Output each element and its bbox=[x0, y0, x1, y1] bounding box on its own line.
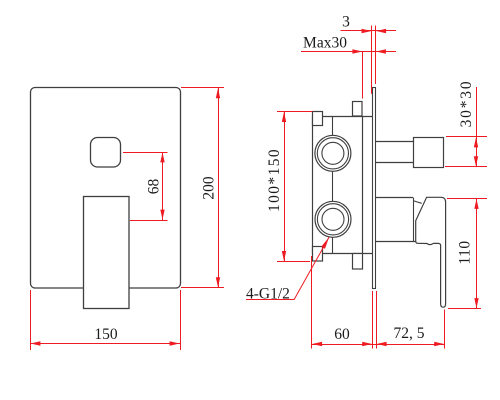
dimension 150: left extension line bbox=[30, 290, 32, 350]
dimension 150: right extension line bbox=[180, 290, 182, 350]
svg-text:200: 200 bbox=[201, 176, 218, 200]
dimension 200: bottom extension line bbox=[181, 287, 224, 289]
valve body centre line segments bbox=[332, 117, 334, 136]
dimension 68: extension line at valve centre bbox=[130, 220, 168, 222]
dimension 68: dimension line bbox=[162, 152, 164, 220]
svg-text:72, 5: 72, 5 bbox=[394, 325, 425, 342]
front plate P1 bbox=[31, 88, 181, 289]
inlet lug bottom-left bbox=[313, 247, 323, 262]
dimension Max30: dimension line bbox=[301, 51, 396, 53]
svg-text:150: 150 bbox=[94, 326, 118, 343]
diverter stem top edge bbox=[376, 141, 414, 143]
dimension 200: dimension line bbox=[218, 88, 220, 288]
dimension 60: left extension line bbox=[311, 256, 313, 349]
lever handle H1 (front) bbox=[84, 197, 130, 309]
dimension 3: right extension line bbox=[375, 26, 377, 85]
svg-text:30*30: 30*30 bbox=[458, 80, 475, 128]
valve body internal edge bbox=[362, 117, 364, 254]
diverter knob 30*30 bbox=[414, 138, 444, 168]
dimension 200: top extension line bbox=[181, 87, 224, 89]
dimension 30*30: bottom extension line bbox=[445, 166, 487, 168]
lower port middle circle bbox=[317, 204, 348, 235]
svg-text:60: 60 bbox=[334, 326, 350, 343]
dimension 30*30: top extension line bbox=[446, 136, 487, 138]
lever neck bottom edge bbox=[376, 241, 416, 243]
inlet lug top-left bbox=[313, 112, 323, 126]
dimension 68: extension line from button centre bbox=[123, 152, 168, 154]
dimension 100*150: bottom extension line bbox=[277, 261, 310, 263]
valve body (side view) outline bbox=[313, 117, 374, 254]
lever neck fillet bbox=[413, 201, 422, 204]
upper port outer circle bbox=[315, 135, 351, 171]
lever handle (side view) bbox=[416, 197, 446, 307]
svg-text:Max30: Max30 bbox=[303, 35, 347, 52]
inlet lug bottom-right bbox=[353, 254, 363, 270]
lower port outer circle bbox=[315, 201, 351, 237]
dimension 100*150: dimension line bbox=[284, 112, 286, 262]
diverter stem bottom edge bbox=[376, 162, 414, 164]
upper port bore circle bbox=[322, 142, 344, 164]
diverter button B1 (front) bbox=[91, 138, 121, 168]
dimension 100*150: top extension line bbox=[277, 111, 313, 113]
dimension 110: bottom extension line bbox=[448, 308, 481, 310]
dimensions 60 and 72,5: dimension line bbox=[312, 344, 445, 346]
lower port bore circle bbox=[322, 208, 344, 230]
dimensions 60/72,5: plate extension lines bbox=[372, 291, 374, 349]
lever neck top edge bbox=[376, 197, 413, 199]
dimension 72,5: right extension line bbox=[444, 310, 446, 349]
label 4-G1/2: leader line to lower port bbox=[294, 237, 329, 299]
svg-text:110: 110 bbox=[457, 240, 474, 264]
dimension 30*30: dimension line bbox=[476, 87, 478, 167]
label 4-G1/2: leader underline bbox=[246, 299, 294, 301]
dimension 150: dimension line bbox=[30, 343, 180, 345]
svg-text:3: 3 bbox=[342, 14, 350, 31]
dimension 3: dimension line bbox=[341, 30, 397, 32]
inlet lug top-right bbox=[353, 102, 363, 117]
wall plate (side view) bbox=[373, 88, 376, 289]
svg-text:100*150: 100*150 bbox=[266, 148, 283, 212]
dimension 110: top extension line bbox=[447, 198, 487, 200]
dimension 110: dimension line bbox=[476, 199, 478, 309]
svg-text:68: 68 bbox=[146, 179, 163, 195]
upper port middle circle bbox=[317, 138, 348, 169]
lever stem right edge bbox=[413, 198, 415, 242]
dimension 3: left extension line bbox=[371, 26, 373, 94]
dimension Max30: extension line bbox=[362, 52, 364, 99]
